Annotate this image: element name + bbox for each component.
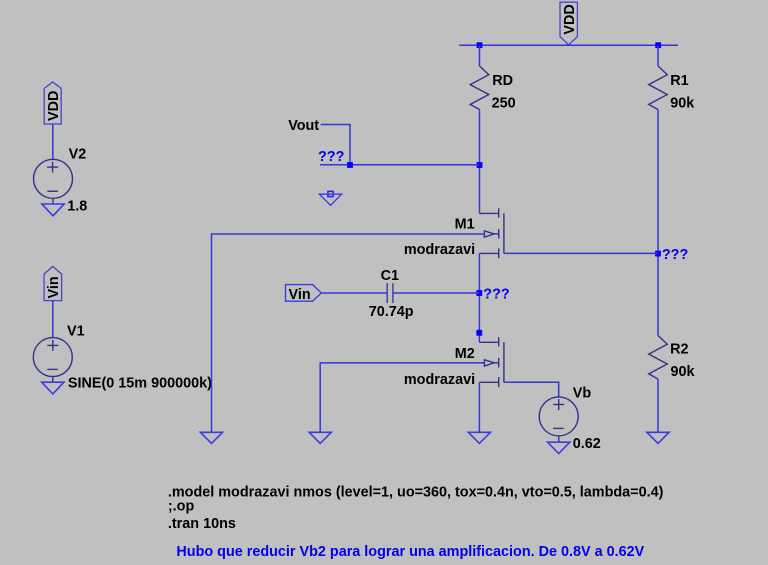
ground (M2 source) — [468, 432, 490, 443]
junction M2 drain — [476, 330, 482, 336]
svg-text:???: ??? — [318, 149, 344, 165]
junction Vout L — [347, 162, 353, 168]
junction on rail at RD — [477, 42, 483, 48]
svg-text:Vin: Vin — [46, 276, 62, 298]
svg-text:M2: M2 — [455, 346, 475, 362]
ground (below R2) — [647, 432, 669, 443]
svg-text:Vin: Vin — [289, 287, 311, 303]
svg-text:SINE(0 15m 900000k): SINE(0 15m 900000k) — [68, 376, 212, 392]
voltage source V1 — [33, 338, 72, 383]
power flag VDD (top) — [560, 2, 577, 45]
svg-text:M1: M1 — [455, 216, 475, 232]
svg-text:Vb: Vb — [573, 385, 592, 401]
svg-text:modrazavi: modrazavi — [404, 372, 475, 388]
junction on rail at R1 — [655, 42, 661, 48]
svg-text:RD: RD — [492, 73, 513, 89]
svg-text:VDD: VDD — [46, 91, 62, 121]
svg-text:???: ??? — [483, 286, 509, 302]
voltage source Vb — [539, 397, 578, 442]
svg-text:.model modrazavi nmos (level=1: .model modrazavi nmos (level=1, uo=360, … — [168, 484, 664, 500]
wire M2 to Vb — [504, 382, 559, 397]
wire R1 to mid node — [657, 110, 659, 336]
junction at Vout node — [477, 162, 483, 168]
svg-text:modrazavi: modrazavi — [404, 242, 475, 258]
wire M2 source down — [478, 382, 480, 432]
svg-text:R1: R1 — [670, 73, 688, 89]
wire top VDD rail — [459, 44, 678, 46]
power flag Vin (on V1) — [44, 266, 62, 300]
port Vin — [286, 285, 322, 302]
svg-text:VDD: VDD — [562, 4, 578, 34]
svg-text:1.8: 1.8 — [67, 198, 87, 214]
ground (M1 gate) — [200, 432, 222, 443]
transistor M2 — [479, 337, 504, 387]
ground (below V2) — [42, 204, 64, 216]
floating ground marker — [319, 191, 341, 205]
capacitor C1 — [387, 283, 393, 303]
junction mid node — [655, 251, 661, 257]
resistor R1 — [649, 66, 668, 110]
svg-text:V2: V2 — [69, 147, 87, 163]
wire V1 flag to source — [52, 301, 54, 338]
svg-text:R2: R2 — [670, 341, 688, 357]
svg-text:;.op: ;.op — [168, 499, 195, 515]
svg-text:???: ??? — [662, 247, 688, 263]
wire Vout node horizontal — [320, 164, 480, 166]
wire M1 source down — [478, 253, 480, 342]
svg-text:90k: 90k — [671, 364, 696, 380]
wire rail to RD — [479, 45, 481, 66]
ground (M2 gate) — [309, 432, 331, 443]
wire C1 to node — [393, 292, 480, 294]
wire Vout L — [321, 125, 350, 165]
resistor R2 — [649, 336, 668, 380]
svg-text:70.74p: 70.74p — [369, 304, 414, 320]
wire V2 flag to source — [52, 124, 54, 159]
svg-text:V1: V1 — [67, 324, 85, 340]
svg-text:0.62: 0.62 — [573, 436, 601, 452]
svg-text:90k: 90k — [670, 96, 695, 112]
voltage source V2 — [34, 159, 73, 204]
junction C1 node — [476, 290, 482, 296]
wire RD to M1 drain — [479, 110, 481, 214]
wire R2 to ground — [657, 379, 659, 432]
svg-text:250: 250 — [492, 96, 516, 112]
wire rail to R1 — [657, 45, 659, 66]
wire port to C1 — [321, 292, 387, 294]
svg-text:Vout: Vout — [288, 118, 319, 134]
wire M1 gate — [212, 234, 485, 432]
ground (below V1) — [42, 382, 64, 394]
ground (below Vb) — [548, 442, 570, 453]
wire M1 source to right node — [504, 252, 658, 254]
power flag VDD (left, on V2) — [44, 82, 61, 124]
svg-text:Hubo que reducir Vb2 para logr: Hubo que reducir Vb2 para lograr una amp… — [176, 544, 644, 560]
resistor RD — [470, 66, 489, 110]
wire M2 gate — [320, 363, 484, 432]
svg-text:.tran 10ns: .tran 10ns — [168, 516, 236, 532]
transistor M1 — [480, 208, 504, 258]
svg-text:C1: C1 — [381, 268, 399, 284]
